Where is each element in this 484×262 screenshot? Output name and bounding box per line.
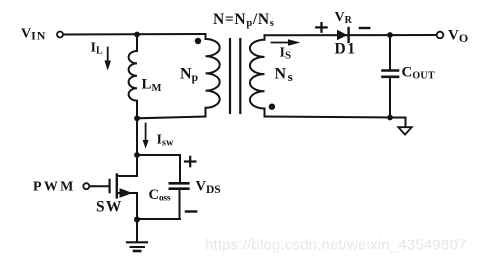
svg-text:COUT: COUT — [402, 65, 435, 82]
minus sign VDS — [186, 210, 196, 212]
transistor SW source with arrow — [117, 192, 137, 194]
svg-text:IL: IL — [91, 41, 103, 57]
svg-text:LM: LM — [142, 77, 162, 95]
wire secondary top rail — [265, 34, 438, 36]
wire Coss top rail — [137, 155, 180, 182]
wire primary bottom rail — [137, 117, 206, 119]
node junction bottom-left of transformer — [134, 115, 140, 121]
wire Coss bottom rail — [137, 218, 180, 220]
node junction output bottom — [387, 115, 393, 121]
svg-text:Ns: Ns — [275, 66, 293, 85]
svg-text:VDS: VDS — [196, 179, 221, 196]
polarity dot primary — [195, 38, 201, 44]
minus sign VR — [360, 27, 369, 29]
terminal PWM circle — [83, 183, 89, 189]
capacitor Coss — [170, 182, 189, 185]
wire top rail primary — [64, 33, 206, 36]
wire secondary bottom rail — [265, 117, 391, 118]
ground left — [136, 220, 138, 243]
arrow IS right — [272, 42, 290, 44]
transformer primary Np — [206, 34, 220, 117]
svg-text:PWM: PWM — [33, 180, 76, 195]
svg-text:VO: VO — [448, 28, 468, 46]
wire PWM to gate — [90, 185, 109, 187]
transistor SW drain — [117, 155, 137, 176]
svg-text:VR: VR — [335, 10, 353, 26]
svg-text:D1: D1 — [335, 41, 357, 58]
wire from transformer down to switch node — [136, 118, 138, 155]
capacitor COUT — [389, 35, 391, 69]
terminal VO circle — [437, 32, 444, 39]
svg-text:VIN: VIN — [21, 27, 46, 43]
ground right — [390, 118, 406, 128]
svg-text:Isw: Isw — [157, 133, 175, 149]
svg-text:IS: IS — [280, 45, 292, 61]
node junction switch/Coss — [134, 152, 140, 158]
arrow IL down — [107, 48, 109, 62]
node junction bottom ground — [134, 217, 140, 223]
plus sign VR — [316, 26, 326, 28]
terminal VIN circle — [57, 32, 63, 38]
svg-text:SW: SW — [96, 199, 123, 216]
transistor SW gate bar — [108, 180, 110, 192]
transformer secondary Ns — [250, 35, 265, 116]
diode D1 — [337, 30, 347, 40]
arrow ISW down — [145, 124, 147, 141]
svg-text:Coss: Coss — [149, 187, 171, 204]
polarity dot secondary — [269, 104, 275, 110]
svg-text:Np: Np — [180, 66, 198, 85]
transformer core bars — [229, 39, 231, 113]
node junction top (VIN to LM/Np) — [134, 32, 140, 38]
svg-text:https://blog.csdn.net/weixin_4: https://blog.csdn.net/weixin_43549807 — [205, 237, 466, 254]
plus sign VDS — [185, 160, 195, 162]
inductor LM — [129, 35, 137, 119]
svg-text:N=Np/Ns: N=Np/Ns — [213, 11, 275, 29]
transistor SW channel bar — [116, 175, 118, 198]
node junction output top — [387, 32, 393, 38]
